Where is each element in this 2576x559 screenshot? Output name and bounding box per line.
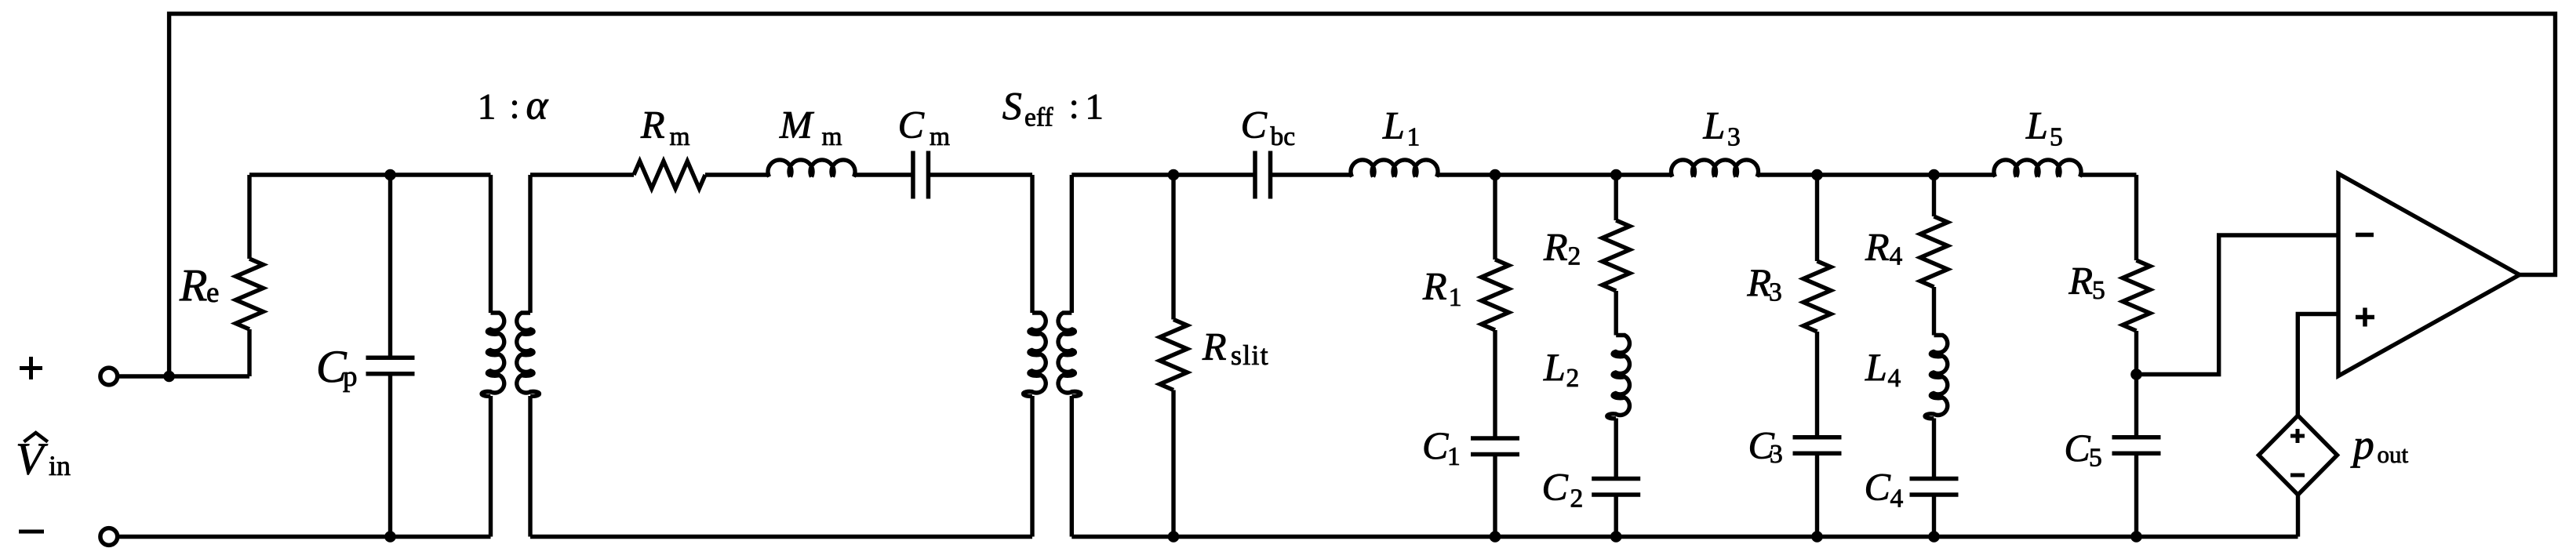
svg-text:5: 5 (2092, 276, 2105, 305)
svg-text:3: 3 (1770, 440, 1783, 469)
svg-text:L: L (1543, 345, 1566, 389)
svg-text:e: e (206, 277, 219, 309)
svg-text:L: L (1382, 103, 1405, 147)
svg-text:4: 4 (1890, 485, 1904, 514)
svg-text:R: R (2068, 259, 2094, 303)
svg-text:1: 1 (1407, 123, 1421, 152)
svg-text:2: 2 (1568, 242, 1581, 271)
svg-text::: : (1069, 86, 1079, 127)
svg-text:C: C (1241, 103, 1268, 147)
svg-text:C: C (898, 103, 925, 147)
svg-text:4: 4 (1890, 242, 1903, 271)
svg-text:3: 3 (1727, 123, 1741, 152)
svg-text:p: p (2350, 421, 2374, 468)
svg-text:in: in (49, 450, 71, 481)
svg-text:R: R (640, 103, 665, 147)
svg-text:2: 2 (1566, 364, 1580, 393)
svg-text:out: out (2378, 441, 2409, 468)
svg-text:5: 5 (2050, 123, 2063, 152)
svg-text:R: R (1422, 264, 1447, 308)
svg-text:S: S (1002, 84, 1022, 128)
svg-text:4: 4 (1888, 364, 1901, 393)
svg-text:C: C (1422, 423, 1449, 467)
svg-text:R: R (1543, 225, 1568, 269)
svg-text:m: m (930, 122, 950, 151)
svg-text:1: 1 (1449, 283, 1462, 312)
svg-text:R: R (1202, 325, 1227, 368)
svg-text:L: L (1865, 345, 1887, 389)
svg-text:C: C (1865, 465, 1891, 509)
svg-text:1: 1 (478, 86, 497, 127)
svg-text:p: p (343, 361, 358, 393)
svg-text:C: C (2064, 426, 2090, 470)
svg-text:1: 1 (1447, 442, 1461, 471)
svg-text:2: 2 (1570, 485, 1584, 514)
svg-text:5: 5 (2089, 444, 2102, 473)
svg-text:R: R (1865, 225, 1890, 269)
svg-text:C: C (1542, 465, 1569, 509)
svg-text:M: M (779, 103, 814, 147)
svg-text:α: α (526, 83, 549, 129)
svg-text:eff: eff (1024, 103, 1053, 132)
svg-text:R: R (179, 260, 207, 311)
svg-text:m: m (822, 122, 842, 151)
svg-text:m: m (670, 122, 690, 151)
svg-text:L: L (2025, 103, 2048, 147)
svg-text:3: 3 (1769, 278, 1782, 307)
svg-text:bc: bc (1271, 122, 1296, 151)
svg-text:slit: slit (1231, 339, 1269, 371)
svg-text:L: L (1703, 103, 1726, 147)
svg-text:1: 1 (1085, 86, 1104, 127)
svg-text:R: R (1747, 260, 1772, 304)
svg-text::: : (510, 86, 520, 127)
